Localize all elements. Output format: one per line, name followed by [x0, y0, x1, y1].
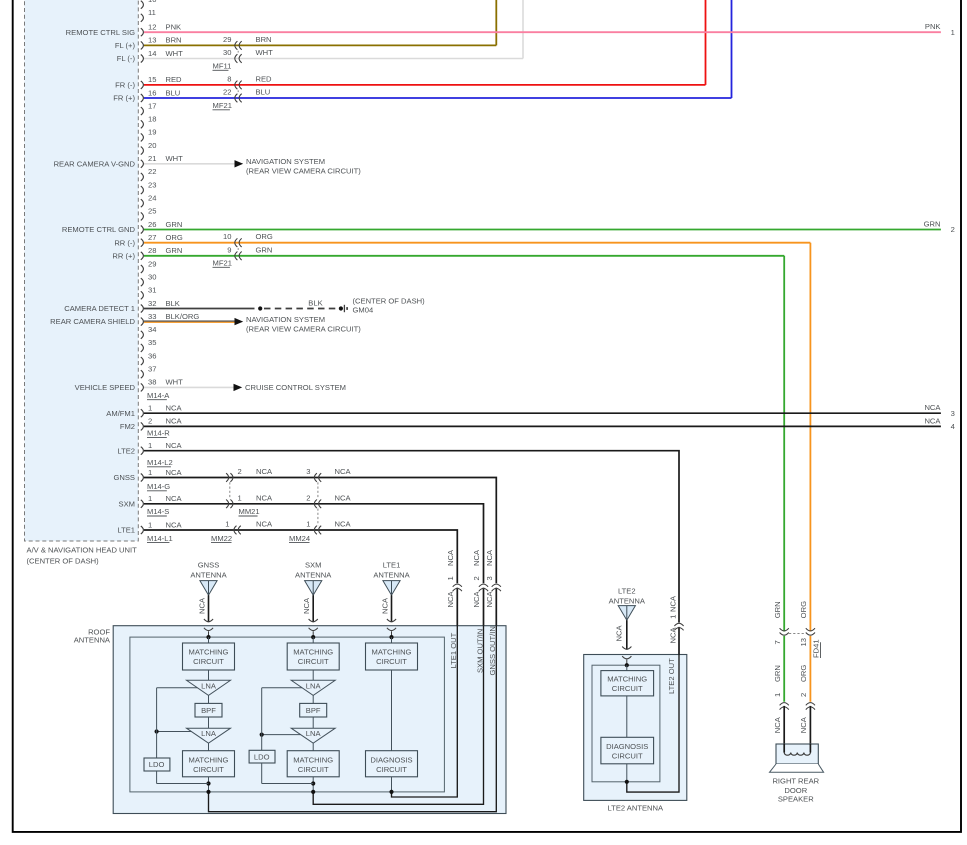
svg-text:ANTENNA: ANTENNA	[190, 571, 227, 580]
svg-text:ANTENNA: ANTENNA	[609, 597, 646, 606]
svg-text:2: 2	[238, 467, 242, 476]
wire ORG pin27 RR(-)	[144, 243, 810, 632]
svg-text:LTE2 ANTENNA: LTE2 ANTENNA	[608, 804, 664, 813]
connector M14 pin 37 stub	[141, 365, 157, 379]
matching circuit (bottom, GNSS)	[183, 743, 235, 794]
svg-text:GM04: GM04	[353, 306, 374, 315]
SXM antenna symbol	[295, 561, 332, 638]
svg-text:(REAR VIEW CAMERA CIRCUIT): (REAR VIEW CAMERA CIRCUIT)	[246, 167, 361, 176]
svg-text:M14-G: M14-G	[147, 482, 170, 491]
svg-text:CIRCUIT: CIRCUIT	[298, 765, 329, 774]
LDO regulator + feedback (GNSS)	[144, 688, 209, 784]
svg-text:GRN: GRN	[773, 601, 782, 618]
connector M14 pin 13 stub	[115, 36, 182, 50]
connector label MF11	[213, 62, 232, 71]
speaker wire NCA left with joint arrows	[773, 703, 789, 753]
head unit pin 2 (FM2) stub	[120, 417, 183, 431]
svg-text:NAVIGATION SYSTEM: NAVIGATION SYSTEM	[246, 315, 325, 324]
svg-text:LTE2 OUT: LTE2 OUT	[667, 658, 676, 694]
svg-text:WHT: WHT	[166, 49, 184, 58]
svg-text:BPF: BPF	[306, 706, 321, 715]
svg-text:VEHICLE SPEED: VEHICLE SPEED	[75, 383, 136, 392]
svg-text:NCA: NCA	[166, 441, 183, 450]
svg-text:38: 38	[148, 378, 156, 387]
svg-text:NCA: NCA	[197, 597, 206, 614]
svg-text:GRN: GRN	[166, 246, 183, 255]
svg-text:SXM: SXM	[305, 561, 321, 570]
connector M14 pin 16 stub	[113, 88, 180, 102]
wire NCA GNSS feed	[144, 478, 496, 812]
wire WHT pin21 rear camera v-gnd	[144, 157, 361, 176]
svg-text:20: 20	[148, 141, 156, 150]
svg-text:FL (+): FL (+)	[115, 41, 136, 50]
svg-text:RED: RED	[256, 75, 273, 84]
svg-text:ORG: ORG	[799, 665, 808, 682]
svg-text:M14-R: M14-R	[147, 429, 170, 438]
svg-text:36: 36	[148, 351, 156, 360]
connector label M14-G	[147, 482, 170, 491]
svg-text:3: 3	[306, 467, 310, 476]
svg-text:FR (-): FR (-)	[115, 81, 135, 90]
wire BLU vertical (pin16 circuit, off page top)	[731, 0, 733, 98]
svg-text:NCA: NCA	[335, 493, 352, 502]
svg-text:NCA: NCA	[669, 627, 678, 644]
connector M14 pin 18 stub	[141, 115, 157, 129]
svg-text:FM2: FM2	[120, 422, 135, 431]
svg-text:11: 11	[148, 8, 156, 17]
svg-text:GRN: GRN	[924, 220, 941, 229]
connector label M14-L2	[147, 458, 173, 467]
svg-text:MF21: MF21	[213, 101, 232, 110]
wire GRN pin26 to right edge (2)	[144, 220, 955, 235]
svg-text:MATCHING: MATCHING	[372, 648, 412, 657]
svg-text:CIRCUIT: CIRCUIT	[612, 684, 643, 693]
connector M14 pin 30 stub	[141, 273, 157, 287]
wire NCA FM2 to right edge (4)	[144, 416, 955, 431]
svg-text:2: 2	[306, 493, 310, 502]
svg-text:BLU: BLU	[166, 88, 181, 97]
svg-text:BLK/ORG: BLK/ORG	[166, 312, 200, 321]
diagnosis circuit (LTE1)	[366, 670, 418, 794]
SXM coax break (2)	[472, 549, 488, 607]
svg-text:ORG: ORG	[799, 601, 808, 618]
GNSS coax break (3)	[485, 549, 501, 607]
speaker wire NCA right with joint arrows	[799, 703, 815, 753]
svg-text:LNA: LNA	[306, 729, 322, 738]
svg-text:CIRCUIT: CIRCUIT	[193, 765, 224, 774]
connector M14 pin 29 stub	[141, 259, 157, 273]
svg-text:FD41: FD41	[812, 639, 821, 658]
svg-text:LNA: LNA	[306, 681, 322, 690]
svg-text:30: 30	[148, 273, 156, 282]
connector M14 pin 32 stub	[64, 299, 180, 313]
svg-text:30: 30	[223, 48, 231, 57]
svg-text:NCA: NCA	[166, 520, 183, 529]
svg-text:BRN: BRN	[166, 36, 182, 45]
svg-text:NCA: NCA	[335, 520, 352, 529]
svg-text:DIAGNOSIS: DIAGNOSIS	[370, 755, 412, 764]
svg-text:10: 10	[148, 0, 156, 4]
svg-text:27: 27	[148, 233, 156, 242]
connector M14 pin 19 stub	[141, 128, 157, 142]
svg-text:26: 26	[148, 220, 156, 229]
svg-text:NCA: NCA	[446, 591, 455, 608]
wire WHT pin14 horizontal	[144, 58, 523, 60]
matching circuit (top, GNSS)	[183, 643, 235, 670]
svg-text:22: 22	[148, 167, 156, 176]
wire GRN lower segment to speaker joint	[773, 636, 784, 702]
svg-text:ORG: ORG	[256, 232, 273, 241]
head unit pin 1 (AM/FM1) stub	[106, 404, 182, 418]
LTE2 coax break connector	[669, 595, 684, 643]
connector label MM24	[289, 534, 310, 543]
svg-text:13: 13	[148, 36, 156, 45]
svg-text:NCA: NCA	[924, 403, 941, 412]
svg-text:NCA: NCA	[446, 549, 455, 566]
svg-text:9: 9	[227, 245, 231, 254]
svg-text:RIGHT REAR: RIGHT REAR	[772, 776, 819, 785]
svg-text:CAMERA DETECT 1: CAMERA DETECT 1	[64, 304, 135, 313]
head unit pin 1 (GNSS) stub	[113, 468, 182, 482]
roof antenna out wire labels	[449, 626, 497, 675]
SXM inline connector MM21 side	[226, 493, 273, 508]
svg-text:1: 1	[225, 520, 229, 529]
svg-text:LDO: LDO	[149, 760, 165, 769]
connector FD41 on ORG wire (pin 13)	[799, 601, 815, 647]
svg-text:GRN: GRN	[256, 245, 273, 254]
wire NCA LTE1 feed	[144, 530, 457, 797]
connector M14 pin 12 stub	[66, 23, 181, 37]
dashed links between inline connectors (antenna rows)	[230, 482, 318, 525]
svg-text:NCA: NCA	[256, 493, 273, 502]
connector label M14-S	[147, 507, 169, 516]
svg-text:WHT: WHT	[166, 378, 184, 387]
svg-text:22: 22	[223, 88, 231, 97]
svg-text:37: 37	[148, 365, 156, 374]
svg-text:34: 34	[148, 325, 156, 334]
svg-text:1: 1	[669, 615, 678, 619]
svg-text:BRN: BRN	[256, 35, 272, 44]
svg-text:NCA: NCA	[472, 591, 481, 608]
connector M14 pin 14 stub	[117, 49, 183, 63]
connector M14 pin 21 stub	[54, 154, 184, 168]
svg-text:BLK: BLK	[308, 299, 322, 308]
svg-text:2: 2	[799, 693, 808, 697]
GNSS receive chain column	[206, 635, 210, 643]
svg-text:CIRCUIT: CIRCUIT	[193, 657, 224, 666]
svg-text:1: 1	[951, 28, 955, 37]
svg-text:REAR CAMERA V-GND: REAR CAMERA V-GND	[54, 159, 136, 168]
LNA amplifier 2 (GNSS)	[187, 717, 231, 743]
svg-text:BLU: BLU	[256, 88, 271, 97]
LNA amplifier 1 (SXM)	[291, 670, 335, 695]
wire GRN pin28 RR(+)	[144, 256, 784, 632]
svg-text:7: 7	[773, 640, 782, 644]
svg-text:NCA: NCA	[166, 417, 183, 426]
svg-text:NCA: NCA	[166, 404, 183, 413]
svg-text:MF11: MF11	[213, 62, 232, 71]
connector M14 pin 38 stub	[75, 378, 184, 392]
svg-text:LNA: LNA	[201, 681, 217, 690]
BPF filter (GNSS)	[195, 695, 222, 717]
LTE1 inline connector MM22	[225, 520, 273, 535]
svg-text:3: 3	[951, 409, 955, 418]
svg-text:WHT: WHT	[166, 154, 184, 163]
svg-text:1: 1	[773, 693, 782, 697]
connector M14 pin 22 stub	[141, 167, 157, 181]
head unit pin 1 (SXM) stub	[119, 494, 183, 508]
svg-text:NCA: NCA	[166, 494, 183, 503]
svg-text:LTE1: LTE1	[383, 561, 401, 570]
svg-text:MATCHING: MATCHING	[293, 755, 333, 764]
svg-text:1: 1	[238, 493, 242, 502]
svg-text:35: 35	[148, 338, 156, 347]
svg-text:NCA: NCA	[256, 520, 273, 529]
svg-text:28: 28	[148, 246, 156, 255]
svg-text:(CENTER OF DASH): (CENTER OF DASH)	[353, 297, 426, 306]
svg-text:CRUISE CONTROL SYSTEM: CRUISE CONTROL SYSTEM	[245, 383, 346, 392]
wire BRN vertical (pin13 circuit, off page top)	[495, 0, 497, 45]
svg-text:31: 31	[148, 286, 156, 295]
svg-text:4: 4	[951, 422, 955, 431]
LDO regulator + feedback (SXM)	[249, 688, 313, 784]
connector M14 pin 31 stub	[141, 286, 157, 300]
connector label MM22	[211, 534, 232, 543]
svg-text:REAR CAMERA SHIELD: REAR CAMERA SHIELD	[50, 317, 135, 326]
svg-text:LTE1: LTE1	[117, 526, 135, 535]
LNA amplifier 2 (SXM)	[291, 717, 335, 743]
connector M14 pin 26 stub	[62, 220, 183, 234]
connector label M14-R	[147, 429, 170, 438]
svg-text:RED: RED	[166, 75, 183, 84]
svg-text:29: 29	[148, 259, 156, 268]
matching circuit (bottom, SXM)	[287, 743, 339, 794]
svg-text:(REAR VIEW CAMERA CIRCUIT): (REAR VIEW CAMERA CIRCUIT)	[246, 324, 361, 333]
roof antenna inner shield rectangle	[130, 637, 445, 792]
svg-text:1: 1	[148, 468, 152, 477]
svg-text:NCA: NCA	[773, 716, 782, 733]
svg-text:SPEAKER: SPEAKER	[778, 795, 814, 804]
svg-text:CIRCUIT: CIRCUIT	[376, 657, 407, 666]
svg-text:LTE1 OUT: LTE1 OUT	[449, 632, 458, 668]
connector label MF21	[213, 101, 232, 110]
connector M14 pin 23 stub	[141, 180, 157, 194]
wire BLK pin32 camera detect with splice	[144, 299, 343, 311]
connector M14 pin 33 stub	[50, 312, 199, 326]
svg-text:3: 3	[485, 576, 494, 580]
GNSS antenna symbol	[190, 561, 227, 638]
svg-text:PNK: PNK	[925, 22, 941, 31]
svg-text:ORG: ORG	[166, 233, 183, 242]
svg-text:PNK: PNK	[166, 23, 182, 32]
svg-text:13: 13	[799, 638, 808, 646]
svg-text:15: 15	[148, 75, 156, 84]
inline connector MF21 (pins 10/9)	[223, 232, 273, 260]
svg-text:NCA: NCA	[485, 591, 494, 608]
svg-text:LDO: LDO	[254, 752, 270, 761]
matching circuit (LTE1)	[366, 643, 418, 670]
LTE2 antenna symbol	[609, 587, 646, 666]
LTE2 antenna inner shield rectangle	[592, 665, 660, 782]
svg-text:NCA: NCA	[485, 549, 494, 566]
wire BLU pin16 horizontal	[144, 97, 732, 99]
svg-text:REMOTE CTRL GND: REMOTE CTRL GND	[62, 225, 136, 234]
svg-text:LTE2: LTE2	[117, 446, 135, 455]
svg-text:MM21: MM21	[239, 507, 260, 516]
connector FD41 on GRN wire (pin 7)	[773, 601, 789, 644]
svg-text:23: 23	[148, 180, 156, 189]
wire NCA SXM feed	[144, 504, 484, 805]
connector FD41 label	[789, 634, 821, 659]
wire RED pin15 horizontal	[144, 84, 706, 86]
svg-text:MM24: MM24	[289, 534, 310, 543]
svg-text:GNSS OUT/IN: GNSS OUT/IN	[488, 626, 497, 675]
LTE1 inline connector MM24	[306, 520, 351, 535]
connector label M14-A	[147, 391, 170, 400]
wire ORG lower segment to speaker joint	[799, 636, 810, 702]
svg-text:ANTENNA: ANTENNA	[295, 571, 332, 580]
svg-text:M14-L2: M14-L2	[147, 458, 173, 467]
wire WHT pin38 vehicle speed	[144, 383, 346, 392]
connector M14 pin 36 stub	[141, 351, 157, 365]
svg-text:32: 32	[148, 299, 156, 308]
svg-text:LTE2: LTE2	[618, 587, 636, 596]
wire BRN pin13 horizontal	[144, 44, 496, 46]
GNSS inline connector MM24 side	[306, 467, 351, 482]
ground point GM04 (center of dash)	[344, 297, 425, 315]
svg-text:14: 14	[148, 49, 156, 58]
connector M14 pin 15 stub	[115, 75, 182, 89]
connector M14 pin 20 stub	[141, 141, 157, 155]
inline connector MF21 (pins 8/22)	[223, 75, 272, 103]
svg-text:16: 16	[148, 88, 156, 97]
svg-text:DIAGNOSIS: DIAGNOSIS	[606, 742, 648, 751]
LTE1 coax break (1)	[446, 549, 462, 607]
svg-text:RR (-): RR (-)	[114, 238, 135, 247]
svg-text:25: 25	[148, 207, 156, 216]
connector M14 pin 24 stub	[141, 194, 157, 208]
roof antenna outer box	[74, 626, 506, 814]
svg-text:GRN: GRN	[773, 665, 782, 682]
svg-text:A/V & NAVIGATION HEAD UNIT: A/V & NAVIGATION HEAD UNIT	[27, 546, 138, 555]
svg-text:WHT: WHT	[256, 48, 274, 57]
wire RED vertical (pin15 circuit, off page top)	[705, 0, 707, 85]
svg-text:SXM OUT/IN: SXM OUT/IN	[475, 629, 484, 673]
svg-text:8: 8	[227, 75, 231, 84]
svg-text:18: 18	[148, 115, 156, 124]
svg-text:2: 2	[148, 417, 152, 426]
connector M14 pin 11 stub	[141, 8, 156, 22]
svg-text:NCA: NCA	[669, 595, 678, 612]
diagnosis circuit (LTE2)	[601, 696, 654, 784]
svg-text:M14-L1: M14-L1	[147, 534, 173, 543]
svg-text:REMOTE CTRL SIG: REMOTE CTRL SIG	[66, 28, 135, 37]
svg-text:29: 29	[223, 35, 231, 44]
LTE1 antenna symbol	[373, 561, 410, 638]
svg-text:CIRCUIT: CIRCUIT	[298, 657, 329, 666]
matching circuit (top, SXM)	[287, 643, 339, 670]
BPF filter (SXM)	[300, 695, 327, 717]
LTE2 out wire label	[667, 658, 676, 694]
inline connector MF11 (pins 29/30)	[223, 35, 273, 63]
svg-text:1: 1	[148, 520, 152, 529]
svg-text:MATCHING: MATCHING	[189, 648, 229, 657]
wire NCA LTE2 feed	[144, 451, 679, 792]
svg-text:MF21: MF21	[213, 259, 232, 268]
connector label M14-L1	[147, 534, 173, 543]
svg-text:GNSS: GNSS	[198, 561, 220, 570]
svg-text:2: 2	[951, 225, 955, 234]
connector label MM21	[239, 507, 260, 516]
wire PNK pin12 to right edge (1)	[144, 22, 955, 37]
svg-text:CIRCUIT: CIRCUIT	[612, 751, 643, 760]
A/V & navigation head unit box	[25, 0, 139, 566]
svg-text:1: 1	[306, 520, 310, 529]
svg-text:NCA: NCA	[256, 467, 273, 476]
svg-text:NCA: NCA	[302, 597, 311, 614]
svg-text:MM22: MM22	[211, 534, 232, 543]
svg-text:1: 1	[148, 441, 152, 450]
connector M14 pin 17 stub	[141, 101, 157, 115]
svg-text:GNSS: GNSS	[113, 473, 135, 482]
svg-text:MATCHING: MATCHING	[189, 755, 229, 764]
svg-text:BPF: BPF	[201, 706, 216, 715]
connector M14 pin 10 stub	[141, 0, 157, 9]
svg-text:NAVIGATION SYSTEM: NAVIGATION SYSTEM	[246, 157, 325, 166]
connector M14 pin 27 stub	[114, 233, 183, 247]
svg-text:1: 1	[148, 494, 152, 503]
svg-text:NCA: NCA	[335, 467, 352, 476]
connector M14 pin 25 stub	[141, 207, 157, 221]
svg-text:33: 33	[148, 312, 156, 321]
svg-text:RR (+): RR (+)	[112, 251, 135, 260]
svg-text:NCA: NCA	[799, 716, 808, 733]
svg-text:24: 24	[148, 194, 156, 203]
matching circuit (LTE2)	[601, 671, 654, 696]
svg-text:21: 21	[148, 154, 156, 163]
svg-text:1: 1	[446, 576, 455, 580]
svg-text:1: 1	[148, 404, 152, 413]
svg-text:FL (-): FL (-)	[117, 54, 136, 63]
svg-text:M14-A: M14-A	[147, 391, 170, 400]
LTE1 diagnosis column	[389, 635, 393, 643]
GNSS inline connector MM21 side	[226, 467, 273, 482]
svg-text:19: 19	[148, 128, 156, 137]
wire BLK/ORG pin33 rear camera shield	[144, 315, 361, 334]
svg-text:BLK: BLK	[166, 299, 180, 308]
LTE2 antenna outer box	[584, 655, 687, 813]
svg-text:NCA: NCA	[472, 549, 481, 566]
LNA amplifier 1 (GNSS)	[187, 670, 231, 695]
svg-text:17: 17	[148, 101, 156, 110]
svg-text:M14-S: M14-S	[147, 507, 169, 516]
svg-text:NCA: NCA	[380, 597, 389, 614]
svg-text:2: 2	[472, 576, 481, 580]
wire NCA AM/FM1 to right edge (3)	[144, 403, 955, 418]
svg-text:CIRCUIT: CIRCUIT	[376, 765, 407, 774]
svg-text:NCA: NCA	[924, 416, 941, 425]
svg-text:12: 12	[148, 23, 156, 32]
wire WHT vertical (pin14 circuit, off page top)	[522, 0, 524, 59]
SXM inline connector MM24 side	[306, 493, 351, 508]
connector label MF21	[213, 259, 232, 268]
svg-text:NCA: NCA	[166, 468, 183, 477]
svg-text:GRN: GRN	[166, 220, 183, 229]
head unit pin 1 (LTE2) stub	[117, 441, 182, 455]
svg-text:FR (+): FR (+)	[113, 94, 135, 103]
LTE2 column	[625, 663, 629, 670]
svg-text:SXM: SXM	[119, 499, 135, 508]
